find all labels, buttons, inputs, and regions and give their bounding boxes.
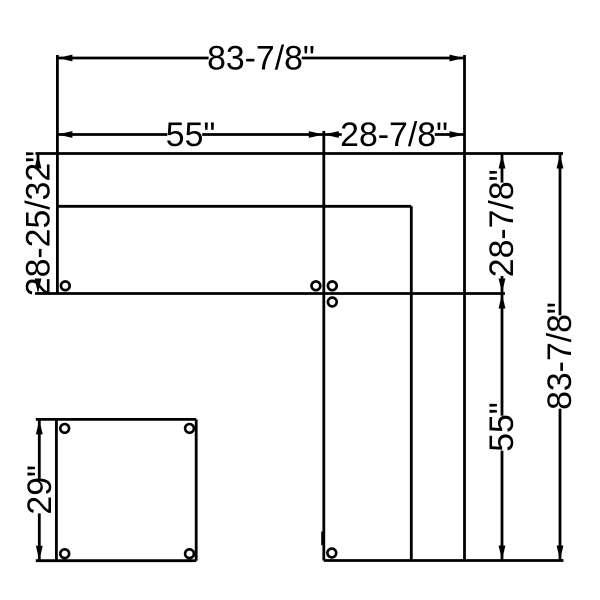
dimension line 28-25/32 vertical left	[37, 154, 40, 294]
dimension line 29 vertical square	[38, 419, 41, 560]
desk top edge with extension lines	[36, 152, 564, 155]
square bottom edge with extension left	[36, 559, 196, 562]
hole inner corner left	[312, 281, 321, 290]
inner offset line vertical	[410, 206, 413, 560]
hole square bottom-right	[185, 549, 194, 558]
text mask 29 square	[26, 479, 52, 514]
dimension line 83-7/8 vertical far right	[559, 154, 562, 561]
arrow top of right 55 dim	[499, 294, 506, 309]
desk inner corner vertical edge with extension up	[322, 131, 325, 561]
arrow bottom of 28-25/32 dim	[35, 279, 42, 294]
desk right edge with extension up	[463, 55, 466, 561]
arrow right of 28-7/8 dim	[450, 131, 465, 138]
hole inner corner right top	[328, 281, 337, 290]
arrow top of far right 83-7/8 dim	[557, 154, 564, 169]
dimension line 28-7/8 vertical right	[501, 154, 504, 294]
svg-text:55": 55"	[483, 402, 521, 452]
dimension line 83-7/8 horizontal top	[57, 57, 464, 60]
arrow top of 28-25/32 dim	[35, 154, 42, 169]
text mask 55	[167, 122, 202, 148]
arrow right of 55 dim	[309, 131, 324, 138]
desk leg bottom edge with extension right	[324, 559, 564, 562]
text mask 55 right	[489, 416, 515, 451]
hole square bottom-left	[60, 549, 69, 558]
hole square top-left	[60, 424, 69, 433]
svg-text:83-7/8": 83-7/8"	[207, 40, 315, 78]
dimension line 55 vertical right	[501, 294, 504, 561]
svg-text:28-25/32": 28-25/32"	[20, 151, 58, 296]
text mask 28-7/8 horizontal	[342, 122, 435, 148]
svg-text:55": 55"	[166, 116, 216, 154]
inner offset line horizontal	[57, 205, 411, 208]
square left edge	[55, 419, 58, 560]
slot mark on inner vertical edge	[321, 532, 325, 546]
arrow left of 55 dim	[57, 131, 72, 138]
hole left wing	[61, 281, 70, 290]
text mask 28-7/8 right	[489, 183, 515, 276]
desk left edge with extension up	[56, 55, 59, 294]
text mask 28-25/32 left	[25, 164, 51, 295]
arrow bottom of right 28-7/8 dim	[499, 279, 506, 294]
arrow bottom of right 55 dim	[499, 546, 506, 561]
svg-text:83-7/8": 83-7/8"	[541, 302, 579, 410]
square top edge with extension left	[36, 418, 196, 421]
arrow top of right 28-7/8 dim	[499, 154, 506, 169]
svg-text:29": 29"	[21, 465, 59, 515]
hole square top-right	[185, 424, 194, 433]
square right edge	[195, 419, 198, 560]
desk left wing front edge with extensions	[35, 292, 505, 295]
arrow left of 28-7/8 dim	[324, 131, 339, 138]
arrow top of 29 dim	[36, 419, 43, 434]
arrow bottom of 29 dim	[36, 546, 43, 561]
hole leg bottom	[327, 549, 336, 558]
arrow right of top 83-7/8 dim	[450, 55, 465, 62]
dimension line 55 horizontal	[57, 133, 323, 136]
hole inner corner right bottom	[328, 298, 337, 307]
svg-text:28-7/8": 28-7/8"	[340, 116, 448, 154]
svg-text:28-7/8": 28-7/8"	[483, 169, 521, 277]
dimension line 28-7/8 horizontal	[324, 133, 465, 136]
text mask 83-7/8 top	[209, 45, 302, 71]
arrow left of top 83-7/8 dim	[57, 55, 72, 62]
arrow bottom of far right 83-7/8 dim	[557, 546, 564, 561]
text mask 83-7/8 far right	[547, 315, 573, 408]
